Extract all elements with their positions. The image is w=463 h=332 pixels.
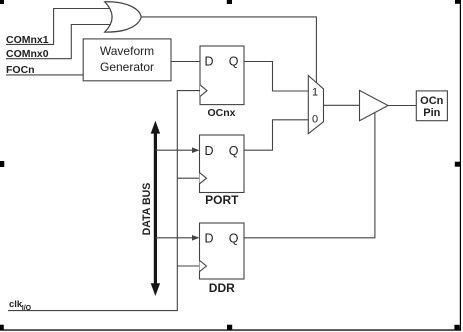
wire clk to DDR clock [177, 265, 199, 267]
or-gate U1 [105, 2, 142, 32]
data bus arrow [151, 121, 160, 296]
wire buffer output to pin [388, 105, 416, 107]
wire clk trunk [8, 91, 200, 311]
svg-text:0: 0 [312, 114, 318, 126]
svg-text:DDR: DDR [209, 281, 235, 295]
flip-flop PORT [200, 135, 245, 193]
svg-text:FOCn: FOCn [6, 64, 35, 76]
svg-text:COMnx0: COMnx0 [6, 48, 49, 60]
svg-text:Q: Q [229, 55, 239, 69]
svg-text:D: D [205, 55, 214, 69]
wire waveform generator to OCnx D [171, 61, 200, 63]
svg-text:Q: Q [229, 144, 239, 158]
wire COMnx1 net [6, 9, 110, 45]
svg-text:D: D [205, 144, 214, 158]
handle top-right [455, 0, 460, 4]
svg-text:OCnx: OCnx [207, 107, 235, 119]
svg-text:DATA BUS: DATA BUS [141, 183, 153, 236]
svg-text:I/O: I/O [22, 305, 32, 312]
clock triangle (OCnx) [200, 85, 207, 97]
svg-text:1: 1 [312, 87, 318, 99]
flip-flop OCnx [200, 46, 244, 105]
clock triangle (PORT) [200, 173, 207, 184]
frame bottom border [0, 329, 461, 330]
wire PORT Q to mux input 0 [244, 120, 308, 150]
mux [308, 76, 323, 134]
svg-text:Q: Q [229, 231, 239, 245]
handle left-middle [0, 161, 4, 167]
wire COMnx0 net [6, 25, 110, 59]
flip-flop DDR [200, 223, 245, 279]
svg-text:Generator: Generator [100, 60, 154, 74]
svg-text:D: D [205, 231, 214, 245]
wire OR output to mux select [141, 17, 316, 84]
handle bottom-right [454, 325, 459, 330]
svg-text:COMnx1: COMnx1 [6, 34, 49, 46]
OCn Pin box [416, 91, 447, 121]
svg-text:OCn: OCn [420, 95, 444, 107]
waveform generator box [83, 39, 171, 81]
wire data bus to PORT D [155, 149, 192, 151]
wire FOCn net [6, 74, 83, 76]
wire clk to PORT clock [177, 177, 199, 179]
handle bottom-left [0, 325, 4, 331]
frame right border [460, 0, 461, 331]
wire DDR Q to buffer control [244, 113, 375, 238]
svg-text:PORT: PORT [205, 193, 239, 207]
svg-text:Pin: Pin [423, 107, 440, 119]
wire mux output to buffer [324, 104, 360, 106]
svg-text:Waveform: Waveform [100, 44, 154, 58]
wire OCnx Q to mux input 1 [244, 62, 308, 92]
wire data bus to DDR D [155, 237, 192, 239]
handle top-middle [227, 0, 232, 4]
handle top-left [0, 0, 4, 4]
handle bottom-middle [227, 325, 232, 331]
buffer (tri-state) [360, 90, 389, 120]
handle right-middle [455, 162, 460, 167]
clock triangle (DDR) [200, 260, 207, 271]
